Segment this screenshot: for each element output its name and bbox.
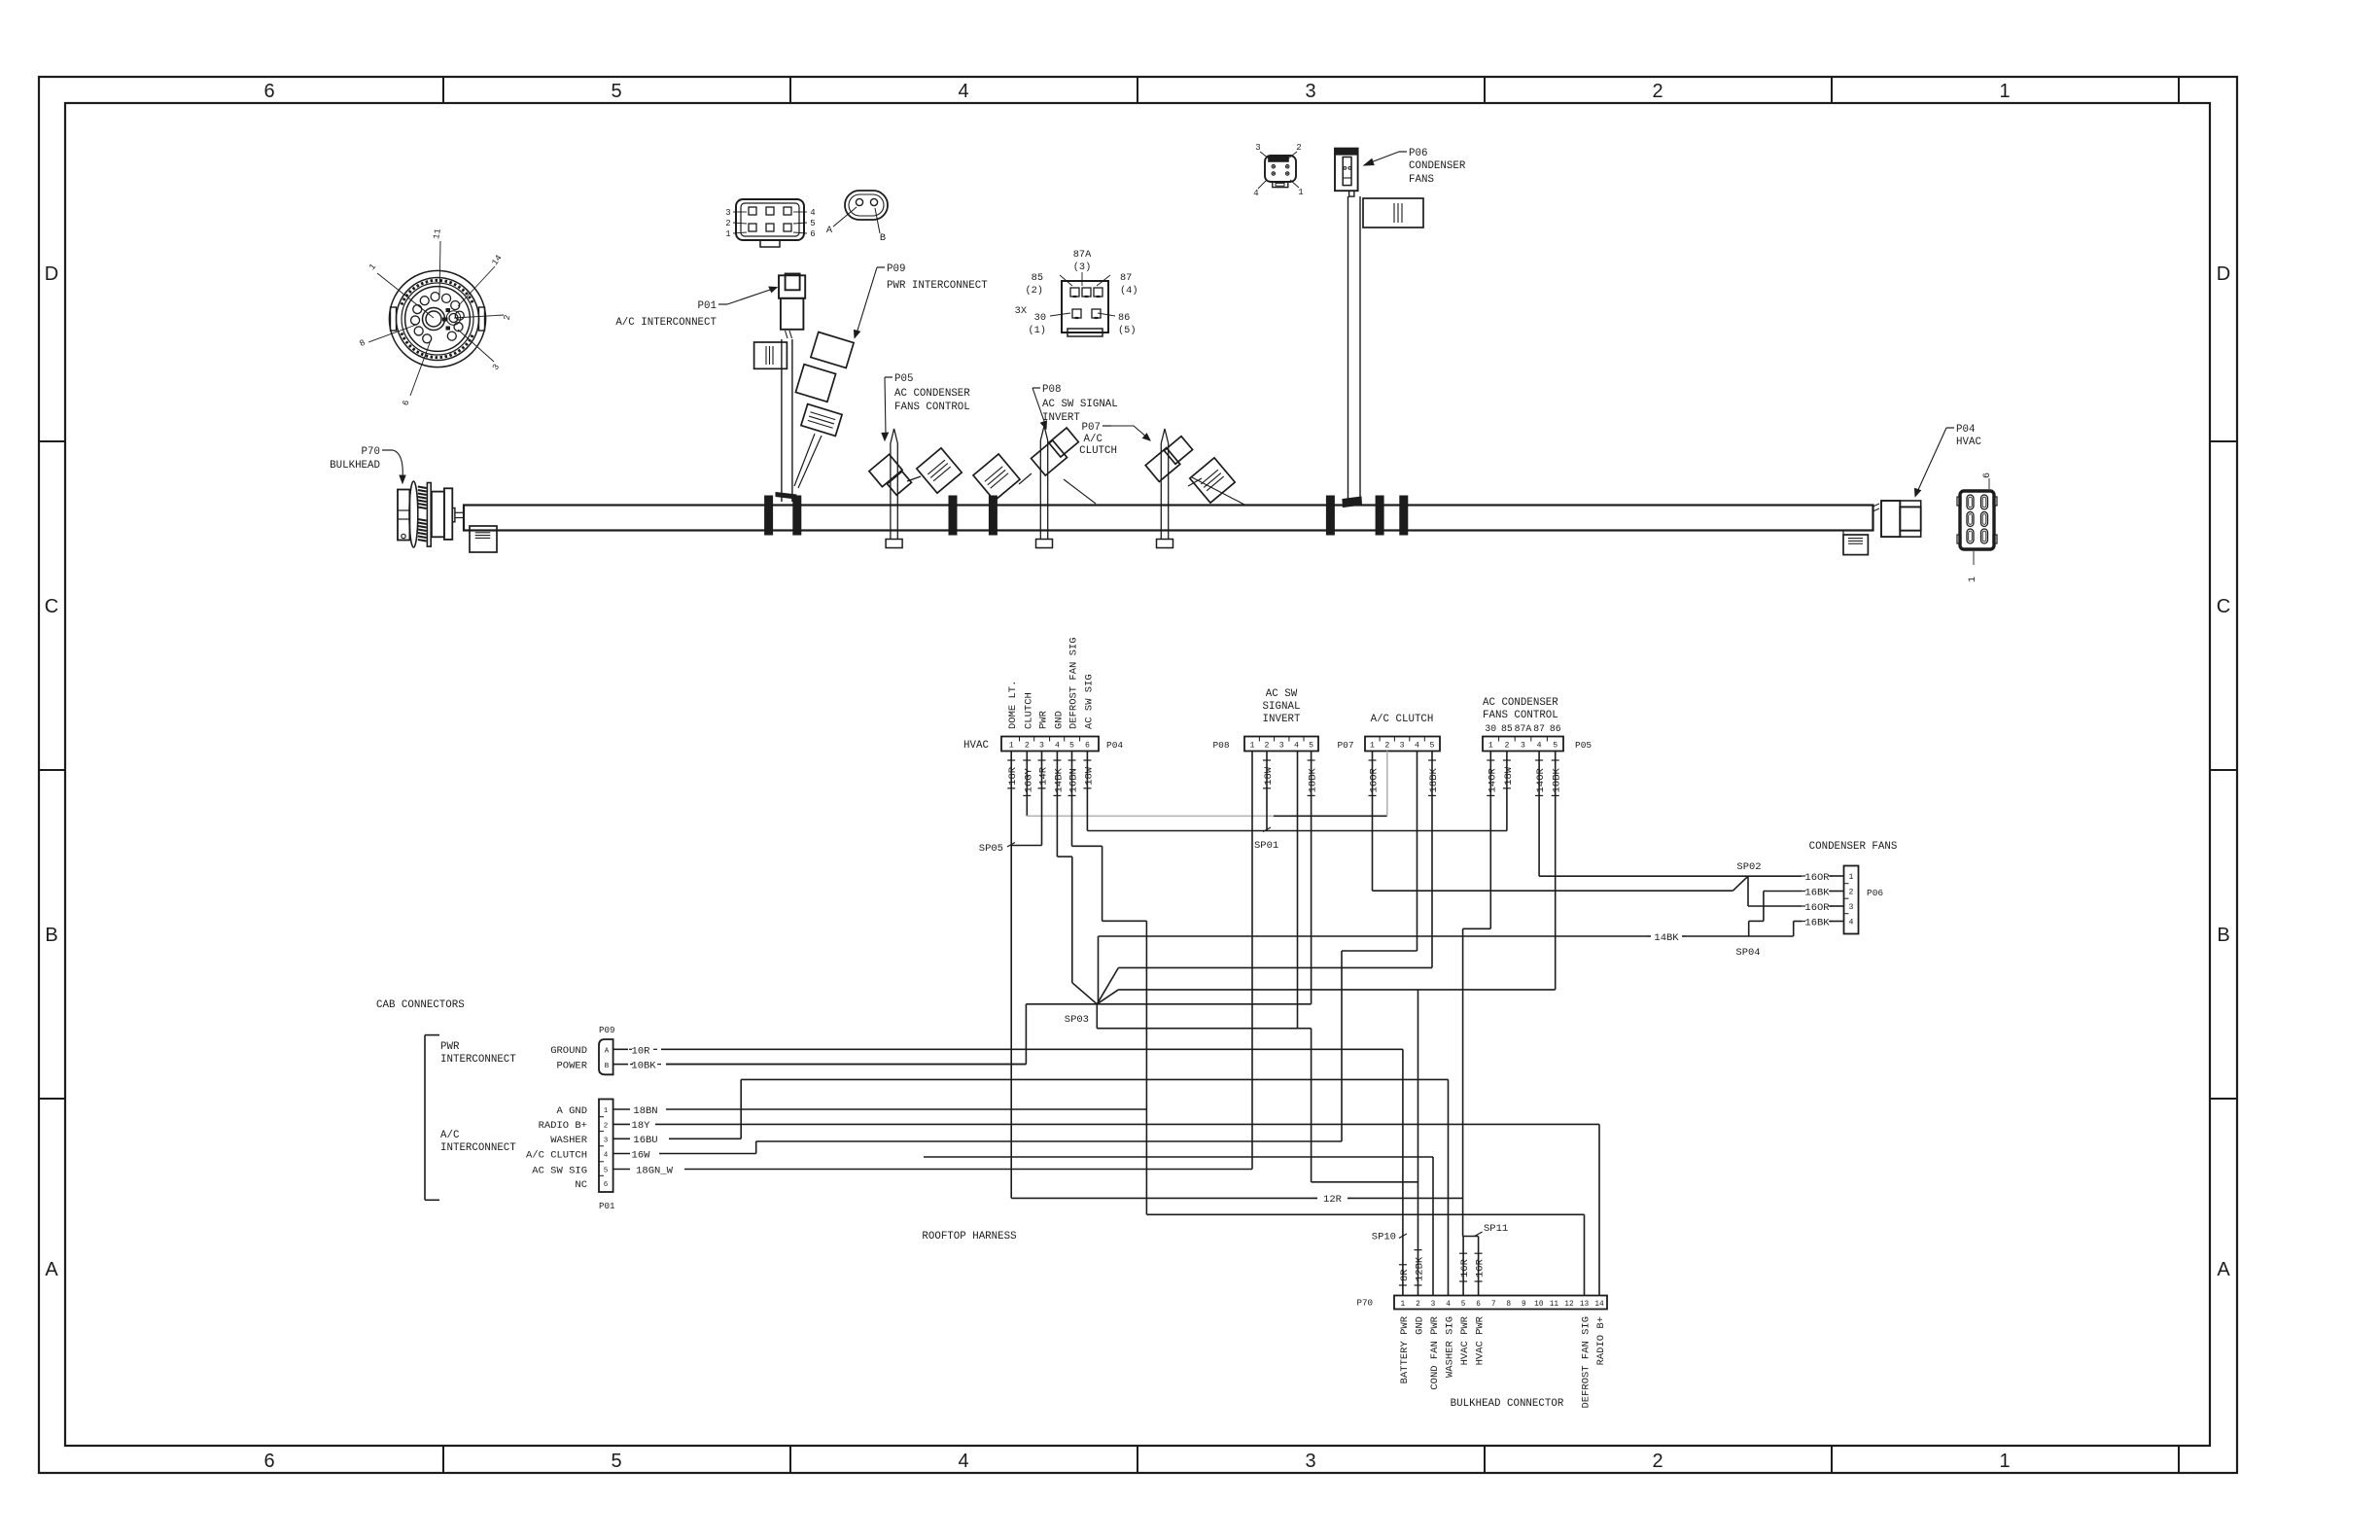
svg-text:6: 6 [1982, 472, 1993, 478]
svg-text:6: 6 [810, 229, 815, 239]
svg-text:14: 14 [1594, 1301, 1604, 1309]
svg-text:AC SW: AC SW [1266, 688, 1298, 700]
svg-text:POWER: POWER [556, 1061, 587, 1072]
svg-text:A: A [2217, 1259, 2230, 1280]
svg-text:4: 4 [958, 81, 968, 102]
svg-text:16GY: 16GY [1023, 767, 1034, 792]
svg-text:14BK: 14BK [1654, 932, 1679, 944]
svg-text:85: 85 [1501, 723, 1513, 734]
svg-text:P07: P07 [1337, 740, 1353, 751]
svg-text:4: 4 [1415, 742, 1419, 751]
svg-text:D: D [2217, 263, 2230, 285]
svg-text:GND: GND [1414, 1316, 1425, 1335]
svg-text:14OR: 14OR [1535, 767, 1547, 792]
svg-text:(3): (3) [1073, 262, 1092, 273]
svg-text:3: 3 [1279, 742, 1284, 751]
svg-text:(2): (2) [1025, 285, 1043, 297]
svg-text:SP11: SP11 [1484, 1223, 1508, 1235]
svg-text:1: 1 [1968, 577, 1978, 582]
svg-text:SP05: SP05 [979, 843, 1003, 855]
svg-text:30: 30 [1034, 312, 1046, 324]
svg-text:PWR: PWR [1038, 710, 1050, 729]
svg-text:9: 9 [1522, 1301, 1526, 1309]
svg-text:16OR: 16OR [1804, 872, 1830, 884]
svg-text:CAB CONNECTORS: CAB CONNECTORS [376, 999, 465, 1011]
svg-text:GROUND: GROUND [550, 1045, 587, 1057]
svg-text:DEFROST FAN SIG: DEFROST FAN SIG [1068, 637, 1080, 729]
svg-text:ROOFTOP HARNESS: ROOFTOP HARNESS [922, 1231, 1016, 1242]
svg-text:3: 3 [1431, 1301, 1436, 1309]
svg-text:6: 6 [263, 81, 274, 102]
svg-text:5: 5 [611, 1451, 621, 1472]
svg-text:P70: P70 [362, 446, 380, 458]
svg-text:13: 13 [1580, 1301, 1590, 1309]
svg-text:P01: P01 [698, 300, 717, 312]
svg-text:3X: 3X [1015, 305, 1027, 317]
svg-text:18W: 18W [1083, 766, 1095, 786]
svg-text:5: 5 [810, 219, 815, 228]
svg-text:HVAC: HVAC [963, 740, 989, 752]
svg-text:3: 3 [1255, 143, 1260, 153]
svg-text:12R: 12R [1323, 1194, 1343, 1206]
svg-text:5: 5 [604, 1168, 609, 1175]
svg-text:B: B [880, 232, 886, 244]
svg-text:11: 11 [432, 227, 443, 239]
svg-text:5: 5 [1553, 742, 1557, 751]
svg-text:3: 3 [1039, 742, 1044, 751]
svg-text:18BK: 18BK [1552, 767, 1563, 792]
svg-text:SP10: SP10 [1372, 1232, 1396, 1243]
svg-text:RADIO B+: RADIO B+ [1595, 1316, 1607, 1365]
svg-text:87A: 87A [1515, 723, 1532, 734]
svg-text:CLUTCH: CLUTCH [1079, 445, 1117, 457]
svg-text:A/C CLUTCH: A/C CLUTCH [526, 1149, 587, 1161]
svg-text:1: 1 [1250, 742, 1255, 751]
svg-text:AC SW SIGNAL: AC SW SIGNAL [1042, 399, 1118, 410]
svg-text:5: 5 [1430, 742, 1435, 751]
svg-text:HVAC PWR: HVAC PWR [1459, 1315, 1471, 1365]
svg-text:P09: P09 [599, 1025, 615, 1035]
svg-text:18BK: 18BK [1308, 767, 1319, 792]
svg-text:A/C CLUTCH: A/C CLUTCH [1371, 714, 1434, 725]
svg-text:2: 2 [1265, 742, 1270, 751]
svg-text:4: 4 [1055, 742, 1060, 751]
svg-text:6: 6 [1085, 742, 1090, 751]
svg-text:CLUTCH: CLUTCH [1023, 692, 1034, 729]
svg-text:1: 1 [1401, 1301, 1406, 1309]
svg-text:2: 2 [1384, 742, 1389, 751]
svg-text:BATTERY PWR: BATTERY PWR [1399, 1315, 1411, 1383]
svg-text:C: C [2217, 596, 2230, 617]
svg-text:P01: P01 [599, 1201, 615, 1211]
svg-text:P05: P05 [894, 373, 913, 385]
svg-text:SP03: SP03 [1065, 1014, 1089, 1026]
svg-text:1: 1 [1999, 1451, 2010, 1472]
svg-text:1: 1 [1370, 742, 1375, 751]
svg-text:FANS CONTROL: FANS CONTROL [1483, 710, 1558, 721]
svg-text:DEFROST FAN SIG: DEFROST FAN SIG [1581, 1316, 1592, 1409]
svg-text:HVAC PWR: HVAC PWR [1475, 1315, 1487, 1365]
svg-text:4: 4 [1537, 742, 1542, 751]
svg-text:AC SW SIG: AC SW SIG [1083, 674, 1095, 729]
svg-text:5: 5 [1461, 1301, 1466, 1309]
svg-text:NC: NC [575, 1179, 587, 1191]
svg-text:BULKHEAD CONNECTOR: BULKHEAD CONNECTOR [1451, 1398, 1564, 1410]
svg-text:2: 2 [1025, 742, 1030, 751]
svg-text:B: B [605, 1063, 610, 1070]
svg-text:18BK: 18BK [1428, 767, 1440, 792]
svg-text:B: B [45, 925, 57, 946]
svg-text:14OR: 14OR [1487, 767, 1498, 792]
svg-text:16BK: 16BK [1804, 918, 1830, 929]
svg-text:4: 4 [604, 1152, 609, 1160]
svg-text:B: B [2217, 925, 2229, 946]
svg-text:14BK: 14BK [1053, 767, 1065, 792]
svg-text:16R: 16R [1475, 1258, 1487, 1277]
svg-text:3: 3 [1305, 1451, 1315, 1472]
svg-text:16OR: 16OR [1804, 902, 1830, 914]
svg-text:18W: 18W [1263, 766, 1275, 786]
svg-text:SIGNAL: SIGNAL [1263, 701, 1301, 713]
svg-text:FANS CONTROL: FANS CONTROL [894, 402, 970, 413]
svg-text:4: 4 [958, 1451, 968, 1472]
svg-text:HVAC: HVAC [1956, 437, 1981, 448]
svg-text:10: 10 [1534, 1301, 1544, 1309]
svg-text:16BN: 16BN [1068, 768, 1080, 792]
svg-text:INVERT: INVERT [1263, 714, 1301, 725]
svg-text:P70: P70 [1356, 1298, 1373, 1309]
svg-text:DOME LT.: DOME LT. [1007, 681, 1019, 729]
svg-text:SP01: SP01 [1254, 840, 1278, 852]
svg-text:3: 3 [1305, 81, 1315, 102]
svg-text:30: 30 [1485, 723, 1496, 734]
svg-text:AC SW SIG: AC SW SIG [532, 1165, 587, 1176]
svg-text:18GN_W: 18GN_W [636, 1165, 674, 1176]
svg-text:AC CONDENSER: AC CONDENSER [894, 388, 970, 400]
svg-text:BULKHEAD: BULKHEAD [330, 460, 380, 472]
svg-text:18Y: 18Y [632, 1120, 651, 1132]
svg-text:2: 2 [1849, 889, 1854, 897]
svg-text:A/C: A/C [440, 1130, 460, 1141]
svg-text:18R: 18R [1007, 766, 1019, 786]
svg-text:P08: P08 [1042, 384, 1061, 396]
svg-text:GND: GND [1053, 711, 1065, 729]
svg-text:WASHER SIG: WASHER SIG [1445, 1316, 1456, 1378]
svg-text:1: 1 [1298, 188, 1303, 197]
svg-text:6: 6 [604, 1181, 609, 1189]
svg-text:4: 4 [1849, 919, 1854, 927]
svg-text:2: 2 [725, 219, 730, 228]
svg-text:5: 5 [1309, 742, 1313, 751]
svg-text:2: 2 [1416, 1301, 1420, 1309]
svg-text:3: 3 [1521, 742, 1525, 751]
svg-text:P04: P04 [1106, 740, 1123, 751]
svg-text:P08: P08 [1212, 740, 1229, 751]
svg-text:86: 86 [1550, 723, 1561, 734]
svg-text:7: 7 [1491, 1301, 1496, 1309]
svg-text:(4): (4) [1120, 285, 1138, 297]
svg-text:P09: P09 [887, 263, 905, 275]
svg-text:1: 1 [1849, 873, 1854, 882]
svg-text:16W: 16W [632, 1149, 651, 1161]
svg-text:(5): (5) [1118, 325, 1137, 336]
svg-text:P05: P05 [1575, 740, 1592, 751]
svg-text:5: 5 [611, 81, 621, 102]
svg-text:6: 6 [263, 1451, 274, 1472]
svg-text:A: A [826, 225, 833, 236]
svg-text:3: 3 [604, 1137, 609, 1144]
svg-text:85: 85 [1032, 272, 1043, 284]
svg-text:3: 3 [1849, 903, 1854, 912]
svg-text:2: 2 [1296, 143, 1301, 153]
svg-text:11: 11 [1550, 1301, 1559, 1309]
svg-text:4: 4 [810, 208, 815, 218]
svg-text:1: 1 [1009, 742, 1014, 751]
svg-text:2: 2 [1504, 742, 1509, 751]
svg-text:16R: 16R [1459, 1258, 1471, 1277]
svg-text:87A: 87A [1073, 249, 1092, 261]
svg-text:SP02: SP02 [1736, 861, 1761, 873]
svg-text:87: 87 [1533, 723, 1545, 734]
svg-text:A: A [605, 1048, 610, 1056]
svg-text:86: 86 [1118, 312, 1130, 324]
svg-text:18BN: 18BN [633, 1105, 657, 1117]
svg-text:1: 1 [1488, 742, 1493, 751]
svg-text:C: C [45, 596, 58, 617]
svg-text:4: 4 [1446, 1301, 1451, 1309]
svg-text:12: 12 [1564, 1301, 1574, 1309]
svg-text:16BU: 16BU [633, 1135, 657, 1146]
svg-text:P07: P07 [1082, 422, 1101, 434]
svg-text:16BK: 16BK [1804, 888, 1830, 899]
svg-text:INTERCONNECT: INTERCONNECT [440, 1054, 516, 1066]
svg-text:12BK: 12BK [1415, 1256, 1426, 1281]
svg-text:10BK: 10BK [631, 1061, 656, 1072]
svg-text:4: 4 [1294, 742, 1299, 751]
svg-text:D: D [45, 263, 58, 285]
svg-text:2: 2 [604, 1122, 609, 1130]
svg-text:1: 1 [725, 229, 730, 239]
svg-text:1: 1 [604, 1107, 609, 1115]
svg-text:A GND: A GND [556, 1105, 587, 1117]
svg-text:CONDENSER: CONDENSER [1409, 160, 1466, 172]
svg-text:COND FAN PWR: COND FAN PWR [1429, 1315, 1441, 1389]
svg-text:5: 5 [1069, 742, 1074, 751]
svg-text:4: 4 [1253, 189, 1258, 198]
svg-text:AC CONDENSER: AC CONDENSER [1483, 697, 1558, 709]
svg-text:P06: P06 [1409, 148, 1427, 159]
svg-text:16OR: 16OR [1369, 767, 1381, 792]
svg-text:3: 3 [725, 208, 730, 218]
svg-text:6: 6 [1476, 1301, 1481, 1309]
svg-text:FANS: FANS [1409, 174, 1434, 186]
svg-text:PWR: PWR [440, 1041, 460, 1053]
svg-text:8R: 8R [1399, 1269, 1411, 1281]
svg-text:A/C: A/C [1084, 434, 1103, 445]
svg-text:INVERT: INVERT [1042, 412, 1080, 424]
svg-text:SP04: SP04 [1735, 947, 1760, 959]
svg-text:WASHER: WASHER [550, 1135, 588, 1146]
svg-text:18W: 18W [1503, 766, 1515, 786]
svg-text:3: 3 [1400, 742, 1405, 751]
svg-text:(1): (1) [1028, 325, 1046, 336]
svg-text:CONDENSER FANS: CONDENSER FANS [1809, 841, 1898, 853]
svg-text:1: 1 [1999, 81, 2010, 102]
svg-text:A/C INTERCONNECT: A/C INTERCONNECT [615, 317, 717, 329]
svg-text:P06: P06 [1867, 888, 1883, 898]
svg-text:8: 8 [1506, 1301, 1511, 1309]
svg-text:2: 2 [1652, 81, 1662, 102]
svg-text:INTERCONNECT: INTERCONNECT [440, 1142, 516, 1154]
svg-text:RADIO B+: RADIO B+ [539, 1120, 587, 1132]
svg-text:2: 2 [1652, 1451, 1662, 1472]
svg-text:P04: P04 [1956, 424, 1975, 436]
svg-text:87: 87 [1120, 272, 1132, 284]
svg-text:14R: 14R [1038, 766, 1050, 786]
svg-text:A: A [45, 1259, 58, 1280]
svg-text:PWR INTERCONNECT: PWR INTERCONNECT [887, 280, 988, 292]
svg-text:10R: 10R [632, 1045, 651, 1057]
